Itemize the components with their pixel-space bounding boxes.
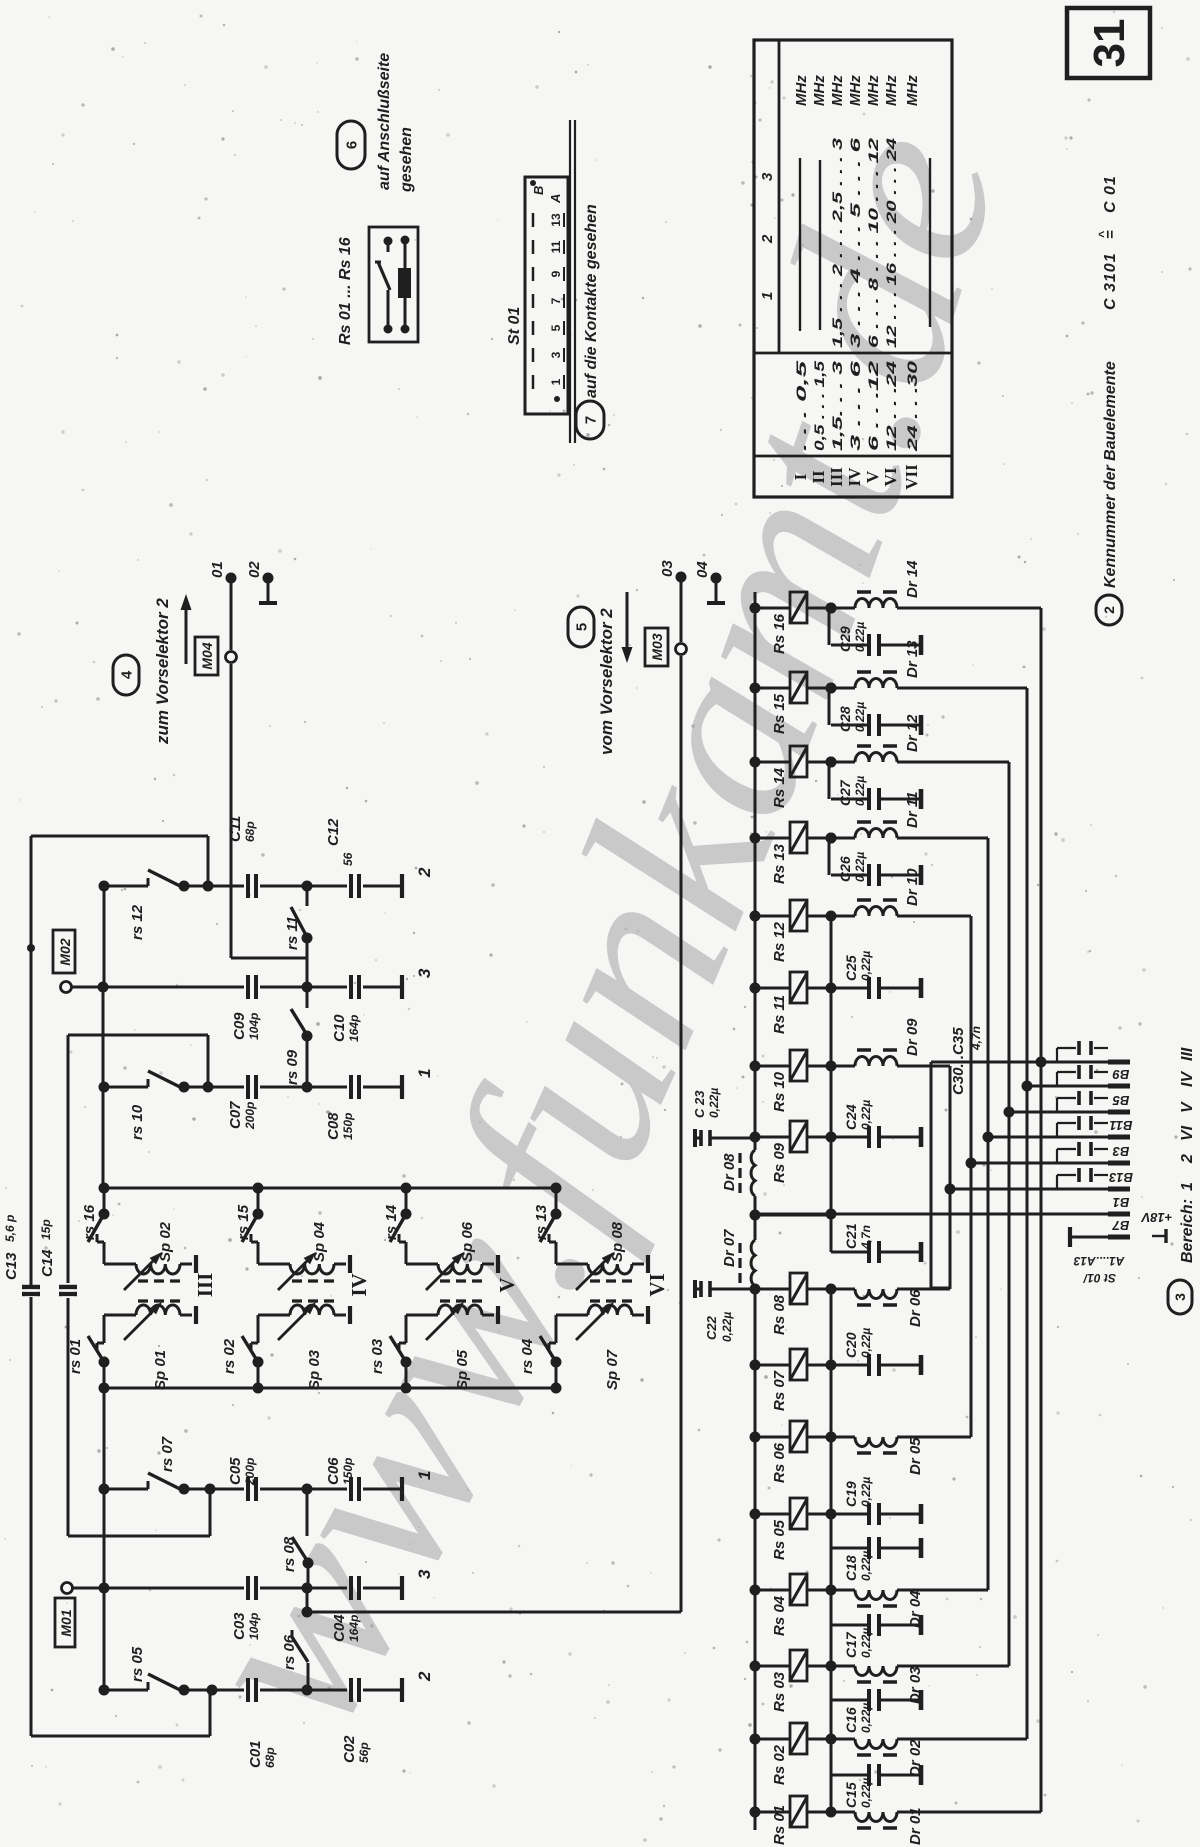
svg-text:M02: M02 bbox=[57, 938, 73, 965]
wire to bus bbox=[897, 1288, 950, 1291]
contact rs06 blade bbox=[292, 1637, 308, 1662]
capacitor C26 0,22u bbox=[826, 833, 837, 844]
inductor choke Dr 02 bbox=[826, 1734, 837, 1745]
svg-text:vom Vorselektor 2: vom Vorselektor 2 bbox=[597, 608, 616, 755]
svg-text:MHz: MHz bbox=[829, 75, 846, 106]
svg-text:12 . . . 16 . . . 20 . . . 24: 12 . . . 16 . . . 20 . . . 24 bbox=[883, 138, 899, 348]
svg-text:6 . . .12: 6 . . .12 bbox=[865, 361, 881, 451]
wire bbox=[184, 885, 244, 888]
capacitor C14 plates bbox=[59, 1285, 77, 1289]
capacitor C30..C35 bbox=[1056, 1149, 1058, 1163]
wire bbox=[209, 1489, 212, 1536]
svg-text:Dr 08: Dr 08 bbox=[721, 1153, 738, 1191]
contact rs 13 bbox=[555, 1188, 558, 1214]
svg-text:11: 11 bbox=[549, 240, 563, 253]
relay Rs 16 bbox=[750, 603, 761, 614]
svg-text:200p: 200p bbox=[243, 1102, 257, 1130]
contact rs08 blade bbox=[292, 1537, 308, 1562]
svg-text:rs 13: rs 13 bbox=[533, 1204, 550, 1240]
svg-text:7: 7 bbox=[582, 416, 599, 424]
capacitor C22 0,22u left of rail bbox=[710, 1288, 755, 1291]
svg-text:Sp 06: Sp 06 bbox=[459, 1221, 476, 1262]
inductor choke Dr 09 bbox=[826, 1061, 837, 1072]
common line of contacts rs13-rs16 bbox=[104, 1187, 558, 1190]
svg-text:3 . . . 4 . . . 5 . . . 6: 3 . . . 4 . . . 5 . . . 6 bbox=[847, 138, 863, 348]
svg-text:0,22µ: 0,22µ bbox=[859, 1551, 873, 1581]
relay Rs 10 bbox=[750, 1061, 761, 1072]
wire bbox=[260, 885, 347, 888]
svg-text:gesehen: gesehen bbox=[398, 127, 415, 193]
terminal MD2 circle bbox=[61, 982, 72, 993]
ground bar bbox=[348, 1255, 352, 1273]
svg-text:rs 03: rs 03 bbox=[369, 1338, 386, 1374]
svg-text:C28: C28 bbox=[837, 706, 853, 732]
bus wire fx=971 bbox=[970, 916, 973, 1437]
core dashes bbox=[138, 1279, 180, 1282]
svg-text:rs 09: rs 09 bbox=[284, 1049, 301, 1085]
svg-text:C 3101: C 3101 bbox=[1102, 252, 1119, 310]
contact rs 15 bbox=[257, 1188, 260, 1214]
wire bbox=[260, 1488, 347, 1491]
terminal O4 bbox=[711, 573, 722, 584]
svg-text:104p: 104p bbox=[247, 1613, 261, 1640]
contact rs 01 bbox=[97, 1342, 104, 1345]
capacitor C30..C35 bbox=[1056, 1098, 1058, 1112]
arrow variable upper bbox=[124, 1258, 157, 1291]
svg-text:^: ^ bbox=[1096, 231, 1110, 238]
contact rs09 blade bbox=[291, 1009, 307, 1035]
capacitor C03 104p bbox=[0, 1588, 1, 1590]
ground bar bbox=[496, 1306, 500, 1324]
svg-text:0,22µ: 0,22µ bbox=[853, 776, 867, 806]
svg-text:St 01/: St 01/ bbox=[1082, 1271, 1116, 1285]
svg-text:3: 3 bbox=[549, 351, 563, 358]
callout 7 bbox=[576, 401, 604, 439]
svg-text:150p: 150p bbox=[341, 1113, 355, 1140]
capacitor C07 200p bbox=[0, 1087, 1, 1089]
capacitor C19 on channel bbox=[826, 1509, 837, 1520]
wire top border bbox=[31, 835, 208, 838]
wire bbox=[184, 1086, 244, 1089]
relay Rs 14 bbox=[750, 757, 761, 768]
svg-text:V: V bbox=[863, 470, 882, 483]
svg-text:Sp 05: Sp 05 bbox=[454, 1349, 471, 1390]
svg-text:rs 06: rs 06 bbox=[281, 1634, 298, 1670]
relay Rs 03 bbox=[750, 1661, 761, 1672]
svg-text:3: 3 bbox=[1172, 1293, 1188, 1301]
svg-text:Kennummer der Bauelemente: Kennummer der Bauelemente bbox=[1102, 361, 1119, 588]
wire to bus bbox=[897, 1811, 1041, 1814]
inductor choke Dr 08 (in rail) bbox=[751, 1150, 755, 1196]
junction bbox=[98, 982, 109, 993]
relay Rs 01 bbox=[750, 1807, 761, 1818]
capacitor C11 68p bbox=[0, 886, 1, 888]
svg-text:zum Vorselektor 2: zum Vorselektor 2 bbox=[153, 598, 172, 745]
svg-text:Dr 13: Dr 13 bbox=[904, 640, 921, 678]
wire to bus bbox=[897, 1065, 950, 1068]
svg-text:2: 2 bbox=[1101, 606, 1117, 614]
callout 5 bbox=[568, 607, 594, 647]
wire loop rs10 lower bbox=[67, 1298, 70, 1536]
svg-text:A: A bbox=[548, 194, 563, 204]
capacitor C29 0,22u bbox=[826, 603, 837, 614]
wire bbox=[68, 1535, 210, 1538]
svg-text:rs 14: rs 14 bbox=[383, 1204, 400, 1240]
svg-text:C22: C22 bbox=[704, 1315, 719, 1340]
svg-text:Rs 06: Rs 06 bbox=[771, 1442, 788, 1483]
table frequency ranges bbox=[754, 40, 952, 497]
ground bar bbox=[646, 1306, 650, 1324]
wire bbox=[104, 1086, 148, 1089]
svg-text:auf die Kontakte gesehen: auf die Kontakte gesehen bbox=[583, 204, 600, 398]
contact rs12 tick bbox=[147, 878, 150, 886]
svg-text:13: 13 bbox=[549, 213, 563, 227]
svg-text:1: 1 bbox=[759, 292, 776, 300]
relay Rs 09 bbox=[750, 1132, 761, 1143]
arrow variable upper bbox=[426, 1258, 459, 1291]
wire coil bbox=[404, 240, 407, 329]
svg-text:Rs 11: Rs 11 bbox=[771, 995, 788, 1034]
svg-text:B5: B5 bbox=[1112, 1093, 1129, 1108]
svg-text:C01: C01 bbox=[247, 1740, 264, 1768]
svg-text:B3: B3 bbox=[1112, 1144, 1129, 1159]
core dashes bbox=[440, 1279, 482, 1282]
wire bbox=[363, 1689, 400, 1692]
bus wire fx=1027 bbox=[1026, 688, 1029, 1739]
watermark www.funkamt.de bbox=[330, 117, 1010, 1747]
svg-text:Rs 08: Rs 08 bbox=[771, 1294, 788, 1335]
svg-text:6: 6 bbox=[343, 141, 360, 149]
svg-text:Rs 14: Rs 14 bbox=[771, 767, 788, 808]
contact rs 03 bbox=[399, 1342, 406, 1345]
arrow vom Vorselektor bbox=[626, 592, 629, 653]
svg-text:M04: M04 bbox=[199, 642, 215, 669]
capacitor C17 0,22u bbox=[831, 1624, 869, 1627]
svg-text:Rs 05: Rs 05 bbox=[771, 1519, 788, 1560]
svg-text:C26: C26 bbox=[837, 856, 853, 882]
svg-text:0,22µ: 0,22µ bbox=[859, 1100, 873, 1130]
relay coil bar bbox=[398, 268, 411, 298]
capacitor C13 plates bbox=[22, 1285, 40, 1289]
svg-text:MHz: MHz bbox=[847, 75, 864, 106]
svg-text:C09: C09 bbox=[231, 1012, 248, 1040]
svg-text:rs 12: rs 12 bbox=[129, 904, 146, 940]
svg-text:68p: 68p bbox=[263, 1747, 277, 1768]
svg-text:0,22µ: 0,22µ bbox=[859, 1477, 873, 1507]
capacitor C30..C35 bbox=[1056, 1175, 1058, 1189]
box MD4 bbox=[195, 637, 218, 675]
wire bbox=[267, 578, 270, 601]
relay Rs 15 bbox=[750, 683, 761, 694]
capacitor C16 0,22u bbox=[831, 1699, 869, 1702]
table row VII line bbox=[929, 158, 931, 327]
arrow variable lower bbox=[426, 1308, 459, 1341]
svg-text:0,5 . . . 1,5: 0,5 . . . 1,5 bbox=[811, 361, 827, 451]
svg-text:MHz: MHz bbox=[904, 75, 921, 106]
inductor choke Dr 10 bbox=[826, 911, 837, 922]
relay Rs 11 bbox=[750, 983, 761, 994]
inductor Sp 05 (variable) bbox=[405, 1315, 408, 1343]
capacitor C13 5,6p bbox=[22, 1285, 40, 1289]
svg-text:rs 05: rs 05 bbox=[129, 1646, 146, 1682]
svg-text:Rs 16: Rs 16 bbox=[771, 613, 788, 654]
svg-text:1: 1 bbox=[549, 378, 563, 385]
wire bbox=[207, 836, 210, 886]
svg-text:12 . . .24: 12 . . .24 bbox=[883, 361, 899, 451]
svg-text:Rs 02: Rs 02 bbox=[771, 1744, 788, 1785]
svg-text:1,5 . . . 2 . . . 2,5 . . . 3: 1,5 . . . 2 . . . 2,5 . . . 3 bbox=[829, 138, 845, 348]
contact rs11 blade bbox=[291, 907, 307, 937]
callout 3 bbox=[1168, 1280, 1192, 1314]
box MD3 bbox=[645, 628, 668, 666]
capacitor C02 56p bbox=[0, 1690, 1, 1692]
terminal row B3 bbox=[971, 1162, 1108, 1165]
svg-text:9: 9 bbox=[549, 270, 563, 277]
svg-text:Dr 07: Dr 07 bbox=[721, 1229, 738, 1267]
junction bbox=[302, 933, 313, 944]
relay Rs 04 bbox=[750, 1585, 761, 1596]
contact rs 16 bbox=[103, 1188, 106, 1214]
capacitor C24 on channel bbox=[826, 1132, 837, 1143]
svg-text:Sp 03: Sp 03 bbox=[306, 1349, 323, 1390]
wire bbox=[680, 656, 683, 1612]
terminal row B7 bbox=[1070, 1236, 1108, 1239]
svg-text:Rs 01 ... Rs 16: Rs 01 ... Rs 16 bbox=[337, 237, 354, 345]
svg-text:. . . 0,5: . . . 0,5 bbox=[793, 361, 809, 451]
wire to bus bbox=[897, 607, 1041, 610]
svg-text:B9: B9 bbox=[1112, 1067, 1129, 1082]
svg-text:Rs 07: Rs 07 bbox=[771, 1370, 788, 1411]
svg-text:Sp 08: Sp 08 bbox=[609, 1221, 626, 1262]
inductor Sp 08 (variable) bbox=[588, 1264, 632, 1274]
junction bbox=[302, 881, 313, 892]
wire bbox=[73, 1587, 244, 1590]
svg-text:rs 01: rs 01 bbox=[67, 1339, 84, 1374]
wire to bus bbox=[897, 687, 1027, 690]
svg-text:MHz: MHz bbox=[865, 75, 882, 106]
wire bbox=[103, 1362, 106, 1690]
contact rs12 blade bbox=[148, 870, 184, 888]
svg-text:164p: 164p bbox=[347, 1015, 361, 1042]
wire outer border left bbox=[30, 836, 33, 1736]
svg-text:Sp 02: Sp 02 bbox=[157, 1221, 174, 1262]
arrow zum Vorselektor bbox=[185, 604, 188, 664]
capacitor C08 150p bbox=[0, 1087, 1, 1089]
ground bar bbox=[496, 1255, 500, 1273]
terminal 2 bbox=[400, 874, 404, 898]
inductor choke Dr 05 bbox=[826, 1432, 837, 1443]
svg-text:2: 2 bbox=[759, 234, 776, 244]
core dashes bbox=[292, 1279, 334, 1282]
svg-text:Rs 03: Rs 03 bbox=[771, 1671, 788, 1712]
wire bbox=[102, 987, 105, 1188]
relay Rs 13 bbox=[750, 833, 761, 844]
svg-text:0,22µ: 0,22µ bbox=[853, 852, 867, 882]
contact rs08 bbox=[306, 1489, 309, 1536]
svg-text:1,5. . . 3: 1,5. . . 3 bbox=[829, 361, 845, 451]
capacitor C30..C35 bbox=[1056, 1048, 1058, 1062]
svg-text:C25: C25 bbox=[843, 955, 859, 981]
svg-text:C29: C29 bbox=[837, 626, 853, 652]
inductor Sp 01 (variable) bbox=[103, 1315, 106, 1343]
svg-text:III: III bbox=[827, 467, 846, 487]
svg-text:2: 2 bbox=[415, 867, 434, 878]
inductor Sp 04 (variable) bbox=[290, 1264, 334, 1274]
svg-text:B: B bbox=[531, 186, 546, 195]
svg-text:24 . . .30: 24 . . .30 bbox=[904, 361, 920, 453]
wire to bus bbox=[897, 1738, 1027, 1741]
wire bbox=[103, 886, 106, 987]
wire loop rs10 upper bbox=[67, 1035, 70, 1283]
relay Rs 08 bbox=[750, 1284, 761, 1295]
wire bbox=[363, 885, 400, 888]
row1 loop wire bbox=[930, 1062, 933, 1288]
wire bbox=[260, 1587, 347, 1590]
relay Rs 06 bbox=[750, 1432, 761, 1443]
contact rs07 blade bbox=[148, 1473, 184, 1491]
svg-text:3 . . . 6: 3 . . . 6 bbox=[847, 361, 863, 451]
ground bar bbox=[646, 1255, 650, 1273]
wire to bus bbox=[897, 1589, 988, 1592]
svg-text:Rs 13: Rs 13 bbox=[771, 843, 788, 884]
svg-text:0,22µ: 0,22µ bbox=[859, 1328, 873, 1358]
bus wire fx=1041 bbox=[1040, 608, 1043, 1812]
inductor choke Dr 06 bbox=[826, 1284, 837, 1295]
wire to bus bbox=[897, 1665, 1009, 1668]
svg-text:C10: C10 bbox=[331, 1014, 348, 1042]
svg-text:A1....A13: A1....A13 bbox=[1073, 1254, 1125, 1268]
svg-text:Rs 04: Rs 04 bbox=[771, 1595, 788, 1636]
svg-text:C14: C14 bbox=[39, 1249, 56, 1277]
wire bbox=[207, 1035, 210, 1087]
svg-text:2: 2 bbox=[415, 1671, 434, 1682]
capacitor C18 0,22u bbox=[831, 1547, 869, 1550]
arrow variable lower bbox=[576, 1308, 609, 1341]
junction bbox=[179, 881, 190, 892]
wire bbox=[209, 1690, 212, 1736]
table row I line bbox=[799, 158, 801, 331]
wire bbox=[72, 986, 244, 989]
svg-text:C19: C19 bbox=[843, 1481, 859, 1507]
wire bbox=[363, 1587, 400, 1590]
ground bar bbox=[194, 1255, 198, 1273]
wire bbox=[680, 577, 683, 642]
inductor choke Dr 07 (in rail) bbox=[751, 1240, 755, 1286]
contact rs07 tick bbox=[147, 1481, 150, 1489]
bus wire fx=1009 bbox=[1008, 762, 1011, 1666]
svg-text:03: 03 bbox=[659, 560, 676, 577]
svg-text:rs 11: rs 11 bbox=[284, 916, 301, 950]
inductor choke Dr 13 bbox=[826, 683, 837, 694]
svg-text:4: 4 bbox=[118, 670, 135, 679]
svg-text:4,7n: 4,7n bbox=[969, 1026, 983, 1051]
svg-text:Rs 12: Rs 12 bbox=[771, 921, 788, 962]
contact rs09 bbox=[306, 987, 309, 1008]
capacitor C09 104p bbox=[0, 987, 1, 989]
svg-text:M03: M03 bbox=[649, 633, 665, 660]
wire bbox=[184, 1488, 244, 1491]
wire to B1 row bbox=[755, 1214, 831, 1217]
capacitor C 23 0,22u left of rail bbox=[710, 1137, 755, 1140]
svg-text:VII: VII bbox=[902, 464, 921, 490]
svg-text:C15: C15 bbox=[843, 1782, 859, 1808]
svg-text:rs 02: rs 02 bbox=[221, 1338, 238, 1374]
svg-text:V: V bbox=[495, 1277, 519, 1292]
svg-text:C03: C03 bbox=[231, 1612, 248, 1640]
junction bbox=[302, 982, 313, 993]
svg-text:C16: C16 bbox=[843, 1707, 859, 1733]
svg-text:C07: C07 bbox=[227, 1101, 244, 1129]
svg-text:+18V: +18V bbox=[1140, 1210, 1172, 1225]
relay Rs 02 bbox=[750, 1734, 761, 1745]
svg-text:St 01: St 01 bbox=[506, 307, 523, 345]
svg-text:C05: C05 bbox=[227, 1457, 244, 1485]
terminal O3 bbox=[676, 572, 687, 583]
svg-text:Dr 09: Dr 09 bbox=[904, 1018, 921, 1056]
svg-text:M01: M01 bbox=[58, 1609, 74, 1636]
wire bbox=[104, 885, 148, 888]
contact rs11 bbox=[306, 886, 309, 906]
wire bbox=[184, 1689, 244, 1692]
capacitor C04 164p bbox=[0, 1588, 1, 1590]
svg-text:68p: 68p bbox=[243, 821, 257, 842]
svg-text:B13: B13 bbox=[1108, 1170, 1133, 1185]
terminal 3 bbox=[400, 975, 404, 999]
junction bbox=[203, 881, 214, 892]
arrow variable upper bbox=[576, 1258, 609, 1291]
terminal 1 bbox=[400, 1477, 404, 1501]
inductor choke Dr 03 bbox=[826, 1661, 837, 1672]
wire bbox=[260, 986, 347, 989]
callout 2 Kennummer bbox=[1096, 595, 1122, 625]
capacitor C25 on channel bbox=[826, 983, 837, 994]
capacitor C12 56 bbox=[0, 886, 1, 888]
contact rs05 blade bbox=[148, 1674, 184, 1692]
wire bbox=[230, 664, 233, 958]
junction mid rail bbox=[750, 1210, 761, 1221]
svg-text:auf Anschlußseite: auf Anschlußseite bbox=[376, 53, 393, 190]
relay Rs 07 bbox=[750, 1360, 761, 1371]
svg-text:Sp 01: Sp 01 bbox=[152, 1350, 169, 1390]
svg-text:MHz: MHz bbox=[883, 75, 900, 106]
svg-text:Rs 15: Rs 15 bbox=[771, 693, 788, 734]
svg-text:C02: C02 bbox=[341, 1735, 358, 1763]
wire rs06 to MD3 column bbox=[307, 1611, 681, 1614]
svg-text:rs 16: rs 16 bbox=[81, 1204, 98, 1240]
connector MD3 circle bbox=[676, 644, 687, 655]
wire bbox=[363, 1086, 400, 1089]
wire bbox=[260, 1689, 347, 1692]
svg-text:4,7n: 4,7n bbox=[859, 1225, 873, 1250]
capacitor C20 on channel bbox=[826, 1360, 837, 1371]
wire bbox=[363, 986, 400, 989]
arrow variable lower bbox=[124, 1308, 157, 1341]
svg-text:C 01: C 01 bbox=[1102, 175, 1119, 213]
wire bbox=[260, 1086, 347, 1089]
box MD2 bbox=[53, 930, 75, 973]
wire to bus bbox=[897, 915, 971, 918]
svg-text:Rs 09: Rs 09 bbox=[771, 1142, 788, 1183]
contact rs05 tick bbox=[147, 1682, 150, 1690]
svg-text:104p: 104p bbox=[247, 1013, 261, 1040]
svg-text:Dr 01: Dr 01 bbox=[907, 1807, 924, 1845]
svg-text:1: 1 bbox=[415, 1471, 434, 1480]
contact rs10 blade bbox=[148, 1071, 184, 1089]
wire to bus bbox=[897, 837, 988, 840]
terminal row B1 bbox=[755, 1213, 1108, 1216]
ground bar bbox=[348, 1306, 352, 1324]
svg-text:Bereich:12VIVIVIII: Bereich:12VIVIVIII bbox=[1179, 1047, 1196, 1263]
